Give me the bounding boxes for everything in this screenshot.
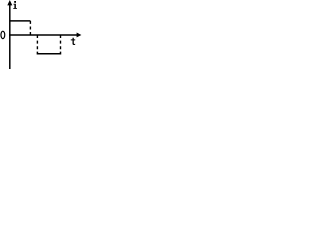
wire: positive pulse top [10, 20, 31, 22]
wire: negative pulse bottom [37, 52, 60, 54]
t axis (horizontal) [9, 34, 77, 36]
wire: dashed drop at t2 [36, 35, 38, 52]
t axis arrowhead [77, 33, 82, 38]
wire: dashed drop at t1 [29, 21, 31, 35]
label 0 [1, 31, 5, 38]
label t [71, 38, 75, 45]
i axis (vertical) [9, 2, 11, 69]
wire: dashed rise at t3 [60, 35, 62, 52]
i axis arrowhead [7, 0, 12, 5]
label i [13, 1, 17, 9]
